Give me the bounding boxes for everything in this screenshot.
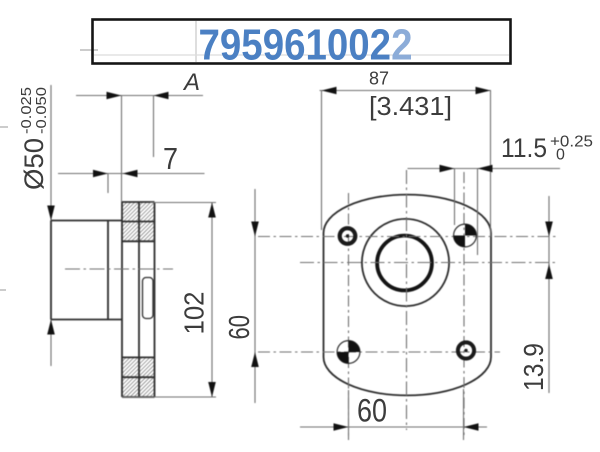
svg-text:7: 7 — [163, 141, 178, 176]
svg-text:13.9: 13.9 — [518, 343, 549, 391]
svg-text:0: 0 — [556, 147, 565, 164]
svg-text:7959610022: 7959610022 — [199, 21, 413, 70]
svg-text:60: 60 — [357, 393, 387, 429]
svg-text:[3.431]: [3.431] — [369, 91, 452, 121]
svg-text:-0.050: -0.050 — [33, 87, 50, 134]
svg-text:Ø50: Ø50 — [19, 138, 49, 190]
svg-text:11.5: 11.5 — [501, 133, 547, 163]
svg-text:102: 102 — [179, 292, 210, 335]
svg-text:87: 87 — [369, 69, 389, 89]
svg-text:A: A — [182, 69, 200, 96]
svg-text:60: 60 — [224, 315, 256, 340]
